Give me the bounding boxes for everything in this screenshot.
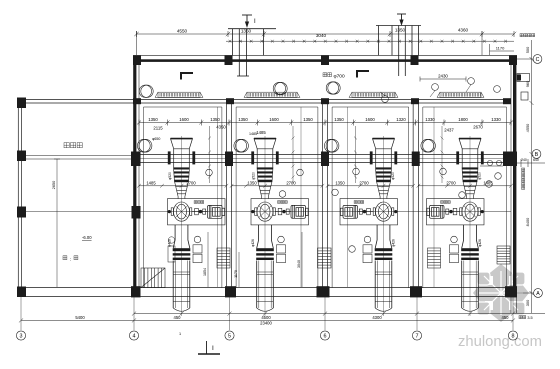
interior wall columns bbox=[133, 98, 511, 104]
mid dimension lines bbox=[137, 184, 513, 188]
gallery columns bbox=[131, 286, 517, 297]
svg-text:1854: 1854 bbox=[203, 268, 207, 276]
svg-text::: : bbox=[70, 258, 71, 263]
svg-text:4550: 4550 bbox=[525, 123, 530, 132]
ticked survey line bbox=[226, 40, 514, 43]
bay suction circles bbox=[137, 139, 435, 152]
corner marks bbox=[181, 71, 369, 80]
bottom right note bbox=[519, 316, 526, 319]
svg-text:3040: 3040 bbox=[297, 260, 301, 268]
hatched ladder bay2 bbox=[318, 248, 332, 268]
svg-text:2700: 2700 bbox=[286, 181, 296, 186]
annex lower label bbox=[63, 256, 67, 260]
svg-text:1: 1 bbox=[179, 332, 181, 336]
svg-text:4300: 4300 bbox=[372, 315, 382, 320]
bay partitions bbox=[226, 103, 418, 288]
svg-text:φ520: φ520 bbox=[168, 172, 172, 180]
svg-text:2670: 2670 bbox=[473, 125, 483, 130]
svg-text:3.5: 3.5 bbox=[527, 316, 532, 320]
hall right wall bbox=[513, 62, 516, 297]
band exit flanges right bbox=[480, 160, 503, 166]
band wall crossings bbox=[131, 152, 517, 167]
svg-text:2700: 2700 bbox=[446, 181, 456, 186]
svg-text:2430: 2430 bbox=[438, 74, 448, 79]
grating rack bay2 bbox=[244, 92, 300, 97]
grating rack bay1 bbox=[155, 92, 203, 97]
svg-text:2700: 2700 bbox=[359, 181, 369, 186]
section mark I (top 2) bbox=[397, 14, 406, 25]
grid bubbles bottom bbox=[16, 331, 517, 340]
bottom dim line 2 bbox=[19, 318, 515, 322]
svg-text:23400: 23400 bbox=[260, 321, 272, 326]
svg-text:2650: 2650 bbox=[52, 181, 56, 189]
svg-text:1600: 1600 bbox=[365, 117, 375, 122]
right grid bubbles bbox=[532, 55, 542, 298]
hatched ladder bay1 bbox=[217, 248, 230, 268]
svg-text:4550: 4550 bbox=[177, 29, 188, 34]
svg-text:φ700: φ700 bbox=[334, 73, 345, 79]
svg-text:450: 450 bbox=[502, 315, 510, 320]
svg-text:6: 6 bbox=[324, 334, 327, 340]
grating rack bay4 bbox=[437, 92, 484, 97]
annex room label bbox=[64, 143, 82, 148]
svg-text:C: C bbox=[536, 57, 540, 63]
right wall detail B bbox=[517, 159, 545, 167]
roof protrusion 2 bbox=[376, 26, 421, 77]
pump axis line bbox=[22, 211, 511, 213]
section mark I (top) bbox=[242, 15, 252, 27]
misc small fittings bbox=[168, 237, 175, 262]
grid extension lines bbox=[21, 297, 513, 330]
svg-text:4500: 4500 bbox=[261, 315, 271, 320]
svg-text:1485: 1485 bbox=[483, 181, 493, 186]
interior wall (corridor / annex top) bbox=[18, 99, 511, 101]
svg-text:1600: 1600 bbox=[179, 117, 189, 122]
svg-text:1350: 1350 bbox=[247, 181, 257, 186]
hatched ladder bay3 bbox=[428, 248, 441, 268]
svg-text:2700: 2700 bbox=[186, 181, 196, 186]
section mark I (bottom) bbox=[198, 341, 220, 354]
svg-text:1350: 1350 bbox=[334, 117, 344, 122]
annex vertical dim bbox=[54, 159, 60, 287]
svg-text:2437: 2437 bbox=[444, 128, 454, 133]
svg-text:1350: 1350 bbox=[210, 117, 220, 122]
svg-text:zhulong.com: zhulong.com bbox=[458, 334, 542, 350]
svg-text:1485: 1485 bbox=[249, 132, 257, 136]
svg-text:960: 960 bbox=[525, 80, 530, 87]
svg-text:φ426: φ426 bbox=[392, 239, 396, 247]
top wall bbox=[133, 54, 517, 56]
svg-text:4: 4 bbox=[133, 334, 136, 340]
right dim chain bbox=[517, 40, 545, 314]
annex cable tray bbox=[26, 156, 131, 159]
corridor balloons bbox=[382, 78, 501, 103]
svg-text:1485: 1485 bbox=[256, 130, 266, 135]
lower vertical dims bbox=[208, 232, 302, 287]
svg-text:3: 3 bbox=[20, 334, 23, 340]
top wall columns bbox=[133, 55, 517, 65]
svg-text:1600: 1600 bbox=[269, 117, 279, 122]
svg-text:640: 640 bbox=[533, 158, 539, 162]
svg-text:φ520: φ520 bbox=[391, 172, 395, 180]
svg-text:3040: 3040 bbox=[316, 33, 327, 38]
pump unit P1 bbox=[168, 107, 226, 316]
svg-text:φ520: φ520 bbox=[252, 172, 256, 180]
right wall exterior boxes bbox=[517, 74, 530, 101]
svg-text:1485: 1485 bbox=[146, 181, 156, 186]
svg-text:1350: 1350 bbox=[335, 181, 345, 186]
top dimension line bbox=[134, 31, 516, 55]
svg-text:450: 450 bbox=[174, 315, 182, 320]
svg-text:1350: 1350 bbox=[303, 117, 313, 122]
svg-text:1170: 1170 bbox=[496, 46, 505, 51]
gallery band bbox=[18, 288, 517, 297]
svg-text:8: 8 bbox=[512, 334, 515, 340]
dim 2430 bbox=[420, 77, 466, 82]
hall left wall bbox=[133, 62, 136, 292]
pump unit P3 bbox=[340, 107, 398, 316]
svg-text:φ650: φ650 bbox=[152, 137, 160, 141]
svg-text:4360: 4360 bbox=[458, 28, 469, 33]
svg-text:5: 5 bbox=[228, 334, 231, 340]
hatched ladder bay4 bbox=[497, 246, 510, 264]
svg-text:A: A bbox=[536, 291, 540, 297]
bay inner lines bbox=[144, 107, 507, 288]
tag balloons bbox=[206, 168, 502, 252]
svg-text:I: I bbox=[212, 345, 214, 352]
annex left wall bbox=[17, 100, 19, 292]
svg-text:-6.00: -6.00 bbox=[82, 235, 92, 240]
corridor manholes bbox=[139, 82, 340, 98]
pump unit P4 bbox=[427, 107, 485, 316]
svg-text:1320: 1320 bbox=[396, 117, 406, 122]
svg-text:1350: 1350 bbox=[395, 28, 406, 33]
bottom dim line 1 bbox=[132, 312, 517, 316]
grating rack bay3 bbox=[349, 92, 398, 97]
svg-text:1800: 1800 bbox=[458, 117, 468, 122]
svg-text:2115: 2115 bbox=[153, 126, 163, 131]
svg-text:φ426: φ426 bbox=[478, 239, 482, 247]
svg-text:500: 500 bbox=[525, 46, 530, 53]
svg-text:4350: 4350 bbox=[216, 125, 226, 130]
svg-text:1330: 1330 bbox=[491, 117, 501, 122]
svg-text:240: 240 bbox=[521, 158, 527, 162]
stairs bbox=[141, 268, 165, 288]
svg-text:1350: 1350 bbox=[238, 117, 248, 122]
roof protrusion 1 bbox=[228, 29, 276, 76]
svg-text:1170: 1170 bbox=[234, 270, 238, 278]
svg-text:5400: 5400 bbox=[75, 315, 85, 320]
manhole label bbox=[323, 73, 332, 77]
right vertical note bbox=[522, 168, 525, 189]
annex columns bbox=[17, 98, 26, 298]
svg-text:φ520: φ520 bbox=[478, 172, 482, 180]
bay dimension strips bbox=[137, 120, 513, 126]
svg-text:1350: 1350 bbox=[148, 117, 158, 122]
discharge pipe band bbox=[139, 155, 511, 163]
svg-text:φ426: φ426 bbox=[251, 239, 255, 247]
watermark logo bbox=[473, 264, 529, 322]
svg-text:7: 7 bbox=[416, 334, 419, 340]
axis wall crossings bbox=[17, 206, 141, 219]
svg-text:300: 300 bbox=[525, 299, 530, 306]
top right note bbox=[520, 34, 535, 37]
svg-text:8400: 8400 bbox=[525, 217, 530, 226]
pump unit P2 bbox=[251, 107, 309, 316]
